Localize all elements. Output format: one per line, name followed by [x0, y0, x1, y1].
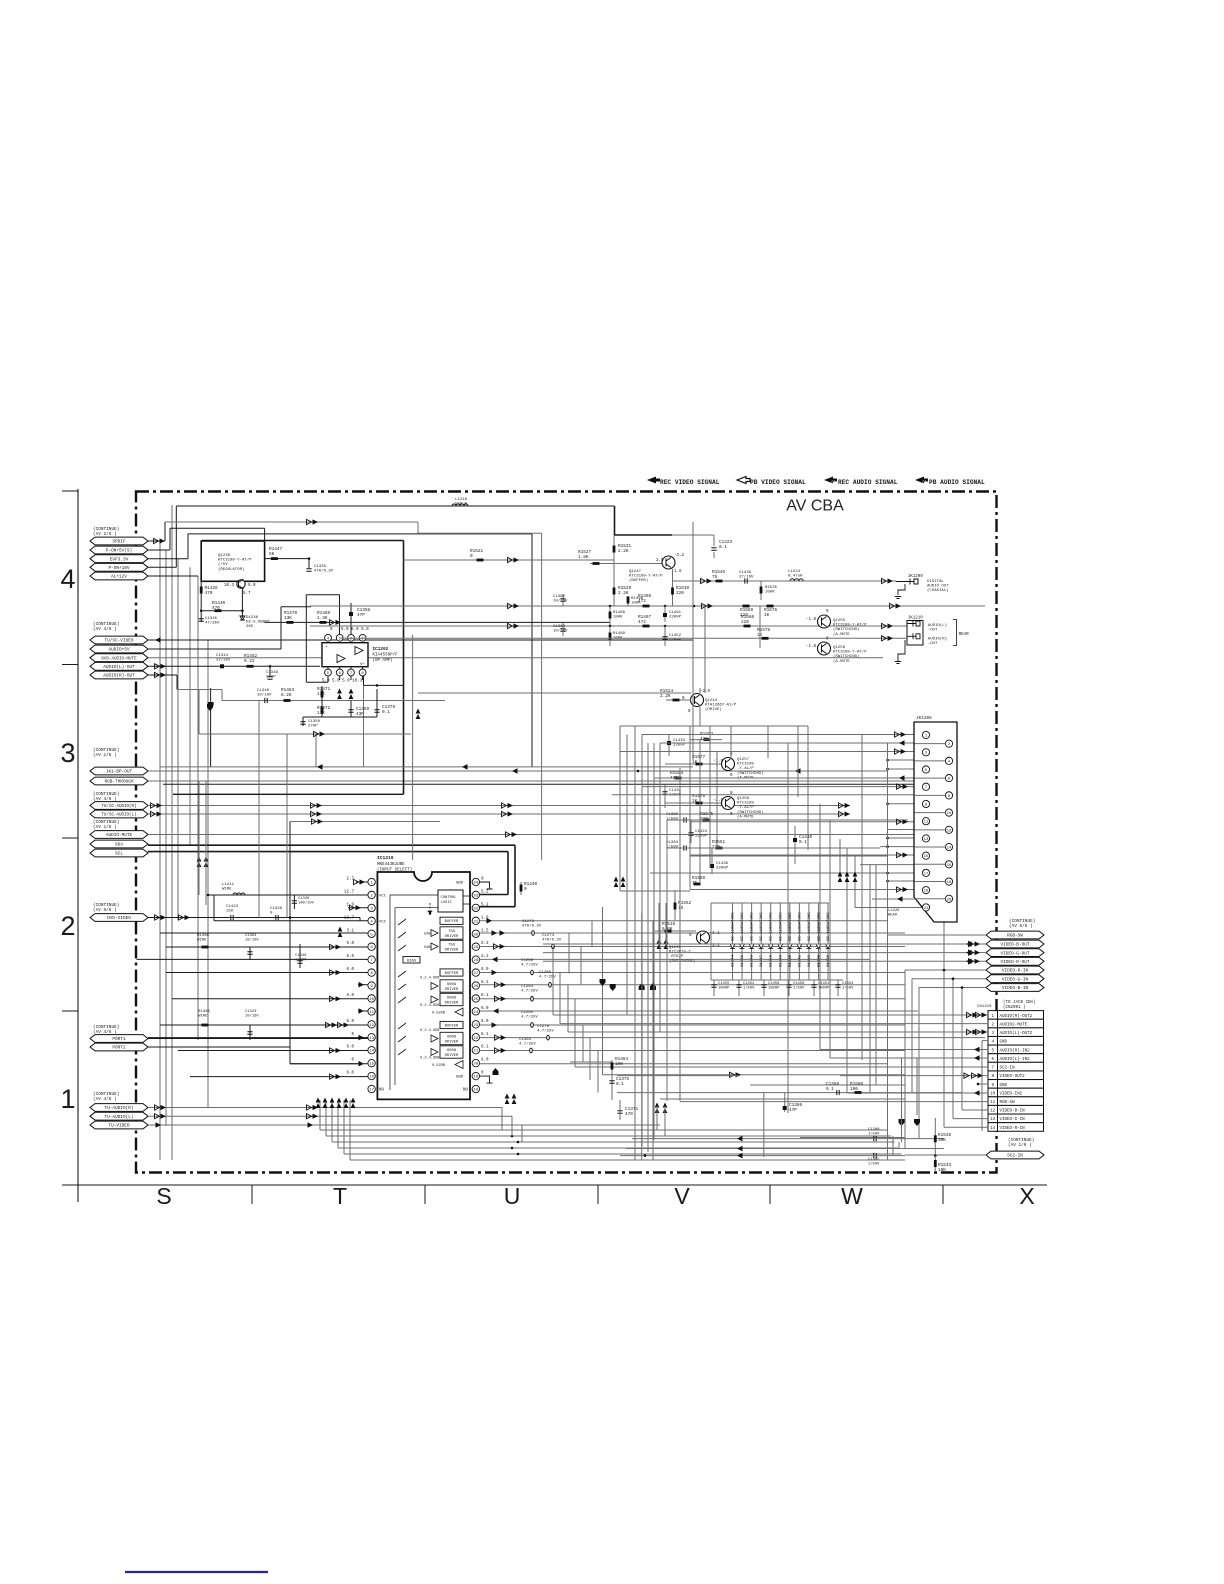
wire jk1-bp-out [148, 770, 887, 772]
svg-text:31: 31 [473, 920, 478, 924]
svg-text:5.7: 5.7 [243, 592, 251, 596]
switch lines group3 [398, 1023, 406, 1055]
svg-text:1/50V: 1/50V [743, 985, 755, 990]
pin32 heavy [480, 906, 516, 908]
svg-text:DRIVER: DRIVER [445, 949, 459, 953]
svg-text:0.1: 0.1 [616, 1082, 624, 1087]
svg-text:0.1: 0.1 [799, 840, 807, 845]
svg-text:10: 10 [947, 812, 952, 816]
svg-text:(SWITCHING): (SWITCHING) [737, 771, 763, 776]
wire cn row1 [553, 1014, 988, 1016]
svg-text:C1364: C1364 [245, 934, 257, 938]
pin16 wire [190, 1076, 368, 1078]
wire cn row6 [830, 1057, 988, 1059]
svg-text:270P: 270P [308, 725, 318, 729]
svg-text:600Ω: 600Ω [447, 1049, 457, 1053]
svg-text:1.3K: 1.3K [317, 616, 328, 621]
JK1206 pin 19 [922, 887, 929, 894]
transistor Q1256 [818, 642, 831, 655]
svg-text:BUFFER: BUFFER [445, 920, 459, 924]
wire y628 audio L [310, 625, 907, 627]
pin31 wire [480, 920, 888, 922]
svg-text:C1345: C1345 [205, 617, 218, 621]
jog vertical b [580, 947, 582, 986]
wire power bus v7 [207, 640, 209, 1107]
wire video-r-in [905, 969, 986, 971]
svg-text:JK1-BP-OUT: JK1-BP-OUT [106, 770, 133, 775]
svg-text:1000P: 1000P [768, 986, 780, 990]
svg-text:75Ω: 75Ω [448, 930, 456, 934]
resistor R1552 [674, 890, 676, 920]
svg-text:29: 29 [473, 946, 478, 950]
svg-text:12.7: 12.7 [344, 890, 355, 894]
resistor R1440 [520, 882, 522, 895]
ruler tick y838 [62, 837, 78, 839]
svg-text:21: 21 [473, 1050, 478, 1054]
svg-text:0.1: 0.1 [719, 545, 727, 550]
capacitor C1279 [547, 1035, 550, 1040]
svg-text:RGB-THROUGH: RGB-THROUGH [105, 780, 134, 785]
svg-text:PORT1: PORT1 [112, 1037, 126, 1042]
heavy top inner [202, 540, 404, 542]
svg-text:12: 12 [369, 1024, 374, 1028]
resistor R1551 [716, 847, 723, 850]
wire sda heavy [148, 844, 515, 846]
diode D1238 [827, 903, 829, 980]
svg-text:C1439: C1439 [739, 571, 752, 575]
svg-text:AUDIO(R): AUDIO(R) [928, 637, 947, 642]
svg-text:2: 2 [60, 911, 75, 941]
ruler bottom line [62, 1184, 1047, 1186]
opamp pins top [327, 634, 329, 640]
svg-text:DVD-AUDIO-MUTE: DVD-AUDIO-MUTE [101, 657, 137, 661]
svg-text:-1.9: -1.9 [713, 760, 724, 764]
resistor row frame [281, 606, 311, 608]
svg-text:TU-VIDEO: TU-VIDEO [108, 1124, 129, 1129]
capacitor C1439b [711, 848, 713, 874]
svg-text:14: 14 [947, 847, 952, 851]
svg-text:2.2K: 2.2K [660, 694, 671, 699]
svg-text:R1496: R1496 [631, 597, 644, 601]
svg-text:GND: GND [1000, 1041, 1008, 1045]
op-amp IC1202 body [322, 643, 368, 667]
wire bundle row 1 [326, 1135, 891, 1137]
svg-text:C1344: C1344 [216, 654, 229, 658]
pin15 wire [290, 1063, 368, 1065]
svg-text:100K: 100K [765, 591, 775, 595]
arrow audio(r)-out [155, 672, 160, 677]
svg-text:C1279: C1279 [537, 1025, 550, 1029]
svg-text:2.5: 2.5 [656, 559, 664, 563]
diode D1242 [808, 903, 810, 980]
svg-text:(COAXIAL): (COAXIAL) [927, 588, 949, 593]
svg-text:2200P: 2200P [669, 639, 682, 643]
svg-text:C1456: C1456 [768, 982, 780, 986]
svg-text:600Ω: 600Ω [447, 997, 457, 1001]
svg-text:0-52DB: 0-52DB [432, 1064, 446, 1068]
resistor R1550 [694, 883, 701, 886]
svg-text:75Ω: 75Ω [448, 944, 456, 948]
svg-text:10/16V: 10/16V [257, 693, 272, 698]
IC1219 pin 15 [368, 1059, 375, 1066]
node TU/SC-AUDIO(R) [90, 802, 148, 810]
JK1206 pin 21 [922, 904, 929, 911]
svg-text:2200P: 2200P [716, 867, 729, 871]
wire dvd-audio-mute [148, 657, 883, 659]
svg-text:D1241: D1241 [798, 954, 802, 967]
junction [269, 665, 272, 668]
capacitor C1363b [530, 1048, 533, 1053]
board border dash-dot rectangle [136, 492, 997, 1173]
svg-text:D1249: D1249 [779, 954, 783, 967]
svg-text:((: (( [831, 480, 836, 485]
diode D1245 [741, 903, 743, 980]
svg-text:(AV 6/6 ): (AV 6/6 ) [1009, 924, 1033, 929]
svg-text:C1273: C1273 [522, 920, 535, 924]
CN1210 row 6 AUDIO(L)-IN2 [988, 1054, 998, 1063]
svg-text:C1265: C1265 [521, 1011, 534, 1015]
svg-text:L1211: L1211 [222, 883, 235, 887]
svg-text:C1323: C1323 [245, 1010, 257, 1014]
svg-text:25: 25 [473, 998, 478, 1002]
arrow tsar [151, 803, 156, 808]
svg-text:12: 12 [947, 829, 952, 833]
capacitor C1345 [199, 619, 204, 621]
svg-text:C1380: C1380 [868, 1128, 880, 1132]
svg-text:V: V [674, 1183, 690, 1209]
pentagon pair x602 [602, 907, 604, 1075]
svg-text:0.1: 0.1 [382, 710, 390, 715]
IC1219 pin 12 [368, 1021, 375, 1028]
svg-text:19: 19 [924, 890, 929, 894]
node RGB-SW [986, 931, 1044, 939]
svg-text:DZ-11BSAT265: DZ-11BSAT265 [751, 912, 755, 941]
arrow y766a [317, 764, 323, 770]
svg-text:27: 27 [473, 972, 478, 976]
svg-text:32: 32 [473, 907, 478, 911]
resistor R1496 [627, 596, 629, 606]
svg-text:30: 30 [473, 933, 478, 937]
resistor R1553 [704, 738, 711, 741]
svg-text:0.2.4.6DB: 0.2.4.6DB [420, 977, 440, 981]
arrow y628 [508, 623, 513, 628]
arrow pair mid-left [197, 857, 202, 868]
capacitor C1260 [549, 982, 552, 987]
pentagon x210 [208, 702, 214, 709]
JK1206 pin 16 [945, 861, 952, 868]
IC1219 pin 23 [472, 1021, 479, 1028]
arrow jk pairs2 [897, 784, 902, 789]
capacitor C1388 [837, 1090, 839, 1095]
svg-text:470: 470 [212, 606, 220, 611]
svg-text:DRIVER: DRIVER [445, 935, 459, 939]
svg-text:(SWITCHING): (SWITCHING) [737, 810, 763, 815]
svg-text:VIDEO-G-OUT: VIDEO-G-OUT [1001, 951, 1030, 956]
svg-text:CN1210: CN1210 [977, 1005, 992, 1009]
node VIDEO-G-OUT [986, 949, 1044, 957]
svg-text:TU/SC-AUDIO(R): TU/SC-AUDIO(R) [101, 804, 136, 809]
svg-text:T: T [333, 1183, 347, 1209]
svg-text:KTC3199: KTC3199 [737, 763, 754, 767]
inductor L1218 [452, 504, 468, 506]
wire digital audio [673, 580, 897, 582]
wire y1138 [632, 1138, 944, 1140]
svg-text:4.7/25V: 4.7/25V [521, 989, 538, 994]
node VIDEO-B-OUT [986, 940, 1044, 948]
svg-text:VIDEO-OUT2: VIDEO-OUT2 [1000, 1075, 1026, 1079]
capacitor C1344 [220, 664, 224, 668]
resistor R1518 [655, 930, 696, 932]
wire bundle row 2 [332, 1141, 895, 1143]
jog vertical c [591, 921, 593, 947]
svg-text:C1348: C1348 [257, 689, 270, 693]
transistor Q1257 [722, 758, 735, 771]
drop vertical v568 [567, 985, 569, 1032]
wire audio-mute [148, 834, 925, 836]
svg-text:C1389: C1389 [666, 813, 679, 817]
svg-text:WIRE: WIRE [197, 939, 207, 943]
svg-text:IC1219: IC1219 [377, 855, 394, 861]
capacitor C1273 [532, 931, 535, 936]
75ohm driver 1 [431, 930, 438, 937]
svg-text:P-ON+5V(S): P-ON+5V(S) [106, 549, 132, 554]
JK1206 pin 4 [945, 757, 952, 764]
svg-text:R1535: R1535 [765, 586, 778, 590]
arrow pair c1491 [614, 877, 619, 888]
node TU/SC-VIDEO [90, 636, 148, 644]
svg-text:KTC3199: KTC3199 [737, 802, 754, 806]
svg-text:IC1202: IC1202 [373, 647, 389, 652]
svg-text:0.2.4.6DB: 0.2.4.6DB [420, 1004, 440, 1008]
svg-text:5.0: 5.0 [248, 584, 256, 588]
svg-text:D1242: D1242 [808, 954, 812, 967]
capacitor C1359 [350, 701, 352, 718]
svg-text:470/6.3V: 470/6.3V [314, 569, 334, 574]
arrow jk1-bp-out [512, 768, 518, 774]
svg-text:DZ-11BSAT265: DZ-11BSAT265 [741, 912, 745, 941]
arrow stack bottom left [505, 1094, 510, 1105]
svg-text:AUDIO(L): AUDIO(L) [928, 623, 947, 628]
svg-text:R1489: R1489 [613, 632, 626, 636]
svg-text:75: 75 [678, 906, 684, 911]
svg-text:4.7/25V: 4.7/25V [521, 1015, 538, 1020]
node VIDEO-R-OUT [986, 957, 1044, 965]
resistor R1463 [284, 699, 291, 702]
svg-text:D1239: D1239 [817, 954, 821, 967]
svg-text:PB VIDEO SIGNAL: PB VIDEO SIGNAL [750, 479, 806, 486]
node SCL [90, 849, 148, 857]
svg-text:23: 23 [473, 1024, 478, 1028]
svg-text:470: 470 [205, 591, 213, 596]
capacitor C1491 [664, 606, 666, 622]
svg-text:VIDEO-B-IN: VIDEO-B-IN [1002, 986, 1029, 991]
pentagon marks bottom [899, 1119, 905, 1126]
wire evf riser [187, 534, 189, 559]
svg-text:VIDEO-IN2: VIDEO-IN2 [1000, 1092, 1023, 1096]
junction dots jk bus [886, 759, 889, 762]
IC1219 pin 31 [472, 917, 479, 924]
svg-text:DRIVER: DRIVER [445, 1002, 459, 1006]
pin14 wire [178, 1050, 368, 1052]
svg-text:19: 19 [473, 1076, 478, 1080]
wire y1148 [626, 1148, 944, 1150]
node SDA [90, 840, 148, 848]
arrow spdif [154, 538, 159, 543]
svg-text:47P: 47P [357, 613, 365, 618]
wire y522 [165, 521, 418, 523]
svg-text:27/16V: 27/16V [739, 575, 754, 580]
svg-text:17: 17 [369, 1089, 374, 1093]
svg-text:DZ-11BSAT265: DZ-11BSAT265 [789, 912, 793, 941]
wire scl heavy [148, 851, 508, 853]
svg-text:1/50V: 1/50V [868, 1161, 880, 1166]
node AUDIO+5V [90, 645, 148, 653]
svg-text:10: 10 [990, 1092, 996, 1096]
svg-text:C1452: C1452 [669, 634, 682, 638]
svg-text:SDA: SDA [115, 843, 123, 848]
resistor R1529 [613, 564, 615, 607]
svg-text:-OUT: -OUT [928, 642, 938, 646]
svg-text:100K: 100K [613, 616, 623, 620]
control logic box [438, 890, 463, 912]
svg-text:AUDIO(R)-IN2: AUDIO(R)-IN2 [1000, 1048, 1031, 1053]
arrow tsal [151, 811, 156, 816]
svg-text:21: 21 [924, 907, 929, 911]
svg-text:265: 265 [246, 625, 254, 629]
svg-text:5dB: 5dB [424, 932, 431, 937]
drop vertical v583 [582, 1025, 584, 1062]
svg-text:2200P: 2200P [673, 744, 686, 748]
wire audio(r)-out drop [176, 675, 178, 690]
resistor R1545 [703, 819, 710, 822]
resistor R1535 [760, 581, 762, 600]
pin10 wire [172, 998, 368, 1000]
wire p-on10v riser [175, 506, 177, 567]
svg-text:-1.8: -1.8 [806, 618, 817, 622]
svg-text:R1468: R1468 [613, 611, 626, 615]
arrow stack below opamp [337, 689, 342, 700]
svg-text:AUDIO+5V: AUDIO+5V [108, 648, 129, 653]
svg-text:10K: 10K [938, 1168, 946, 1173]
arrow tu/sc-video [155, 637, 161, 643]
75ohm driver 2 [431, 943, 438, 950]
svg-text:(A-MUTE: (A-MUTE [833, 632, 850, 637]
node VIDEO-G-IN [986, 975, 1044, 983]
arrow pair y1106 [655, 1103, 660, 1114]
node VIDEO-B-IN [986, 984, 1044, 992]
capacitor C1375 [611, 1060, 613, 1100]
svg-text:VIDEO-R-OUT: VIDEO-R-OUT [1001, 960, 1030, 965]
arrow x418 [416, 709, 421, 720]
wire cn row7 [575, 1066, 988, 1068]
svg-text:6.0: 6.0 [346, 1046, 354, 1050]
IC1219 pin 25 [472, 995, 479, 1002]
buffer box 3 [440, 1021, 463, 1028]
pentagon mark x210 [207, 704, 213, 711]
svg-text:C1458: C1458 [793, 982, 805, 986]
footer blue line [125, 1571, 268, 1573]
junction video in [943, 969, 946, 972]
IC1219 pin 14 [368, 1047, 375, 1054]
IC1219 pin 6 [368, 943, 375, 950]
svg-text:220: 220 [741, 620, 749, 625]
svg-text:17: 17 [924, 872, 929, 876]
wire video-g-out [543, 952, 986, 954]
svg-text:4.7/25V: 4.7/25V [519, 1042, 536, 1047]
resistor R1471 [321, 686, 323, 701]
svg-text:AUDIO OUT: AUDIO OUT [927, 585, 949, 589]
svg-text:100: 100 [615, 1062, 623, 1067]
wire hex stubs group1 [148, 540, 165, 542]
svg-text:28: 28 [473, 959, 478, 963]
svg-text:15: 15 [369, 1063, 374, 1067]
junction y606 [609, 605, 612, 608]
capacitor C1348 [265, 698, 267, 703]
svg-text:EVF3.3V: EVF3.3V [110, 557, 129, 562]
svg-text:(TO JACK CBA): (TO JACK CBA) [1003, 1000, 1036, 1005]
svg-text:RGB-SW: RGB-SW [1007, 934, 1023, 939]
node TU/SC-AUDIO(L) [90, 810, 148, 818]
IC1219 pin 30 [472, 930, 479, 937]
svg-text:SC2-IN: SC2-IN [1000, 1067, 1016, 1071]
capacitor C1264 [531, 997, 534, 1002]
svg-text:D1250: D1250 [770, 954, 774, 967]
IC1219 pin 5 [368, 930, 375, 937]
capacitor C1386 [784, 1093, 786, 1112]
IC1219 pin 24 [472, 1008, 479, 1015]
capacitor C1452b [738, 980, 740, 996]
svg-text:-Y-A1/P: -Y-A1/P [737, 805, 754, 810]
svg-text:(SWITCHING): (SWITCHING) [833, 654, 859, 659]
svg-text:18: 18 [473, 1089, 478, 1093]
svg-text:C1350: C1350 [308, 720, 321, 724]
pin9 arrow [358, 984, 368, 986]
svg-text:NU: NU [463, 1089, 469, 1093]
capacitor C1363 [560, 629, 565, 631]
svg-text:13: 13 [990, 1118, 996, 1122]
capacitor C1274 [552, 944, 555, 949]
svg-text:30K: 30K [938, 1138, 946, 1143]
IC1219 pin 19 [472, 1072, 479, 1079]
svg-text:D1244: D1244 [732, 954, 736, 967]
capacitor C1439 [745, 578, 747, 583]
svg-text:(CN2001 ): (CN2001 ) [1003, 1005, 1026, 1010]
wire video-b-out [543, 943, 986, 945]
svg-text:1/50V: 1/50V [666, 845, 679, 850]
svg-text:(A-MUTE: (A-MUTE [737, 814, 754, 819]
svg-text:C1264: C1264 [521, 985, 534, 989]
svg-text:KTC3199-Y-AT/P: KTC3199-Y-AT/P [218, 558, 252, 563]
resistor R1546 [716, 580, 723, 583]
svg-text:C1491: C1491 [669, 611, 682, 615]
svg-text:4: 4 [60, 564, 75, 594]
pin25 wire [480, 998, 906, 1000]
wire power bus v2 [165, 550, 167, 1126]
node JK1-BP-OUT [90, 767, 148, 775]
svg-text:33: 33 [473, 894, 478, 898]
pin3 arrow [348, 907, 368, 909]
svg-text:AUDIO-MUTE: AUDIO-MUTE [106, 833, 133, 838]
svg-text:C1362: C1362 [553, 595, 566, 599]
svg-text:NU: NU [379, 1089, 385, 1093]
svg-text:PORT2: PORT2 [112, 1046, 126, 1051]
CN1210 row 5 AUDIO(R)-IN2 [988, 1045, 998, 1054]
svg-text:-1.8: -1.8 [806, 645, 817, 649]
svg-text:AUDIO2-MUTE: AUDIO2-MUTE [1000, 1023, 1028, 1027]
capacitor C1380 [874, 1136, 876, 1141]
capacitor C1326 [293, 895, 295, 909]
svg-text:270P: 270P [266, 676, 276, 680]
